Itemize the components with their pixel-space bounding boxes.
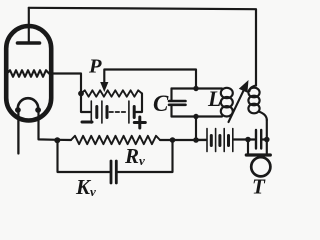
battery B1 dashed cells [110,111,127,113]
phone T verticals [248,120,267,155]
tank bottom wire [172,115,223,117]
plus label [134,117,145,128]
node: cathode junction [54,137,60,143]
tube V1 envelope [6,26,51,121]
potentiometer P zigzag [81,90,142,96]
variometer arrowhead [239,80,249,93]
grid wire out of tube [51,74,81,94]
top rail wire (plate to right corner, down to coil) [29,8,256,86]
battery B1 right lead [136,94,142,113]
svg-text:C: C [153,91,169,116]
svg-text:Kv: Kv [75,175,96,199]
minus label [82,121,92,124]
node: pot left junction [78,91,84,97]
wiper arrowhead [100,82,108,92]
node: tank top [193,86,198,91]
secondary coil loops [250,86,257,92]
capacitor Kv plates [111,161,116,183]
node: Rv/Kv right junction [170,137,176,143]
tube plate lead wire [28,8,30,43]
node: tank stub junction [193,137,199,143]
bottom wire to Rv [57,139,71,141]
tube filament arc [18,98,38,110]
node: phone left [245,137,251,143]
wiper arrow wire to C [104,70,196,89]
variometer arrow shaft [229,86,246,122]
tube grid zigzag [7,70,49,77]
node: tank bottom [193,114,198,119]
svg-text:Rv: Rv [124,144,145,168]
battery B2 leads [196,138,248,141]
filament terminal dot right [35,107,41,113]
battery B1 plates [90,101,92,123]
capacitor C branch [170,89,172,117]
svg-text:T: T [252,175,266,199]
anode battery B2 plates [206,129,208,152]
blocking capacitor plates [256,130,261,149]
tank stub down to battery wire [195,117,197,141]
filament lead right [39,111,58,140]
tube plate bar [18,41,40,45]
capacitor Kv branch [58,140,173,172]
inductor L coil loops [221,88,233,98]
svg-text:P: P [88,56,102,78]
svg-text:L: L [207,86,221,111]
wire Rv to junctions [160,139,206,141]
blocking capacitor leads [248,138,267,140]
resistor Rv zigzag [71,136,160,144]
tank top wire [172,87,223,89]
filament terminal dot left [15,107,21,113]
node: phone right [264,137,270,143]
battery B1 left lead [81,94,90,113]
filament lead left (free end) [17,111,19,154]
phone T body circle [251,157,270,176]
phone T top bar [246,153,270,156]
